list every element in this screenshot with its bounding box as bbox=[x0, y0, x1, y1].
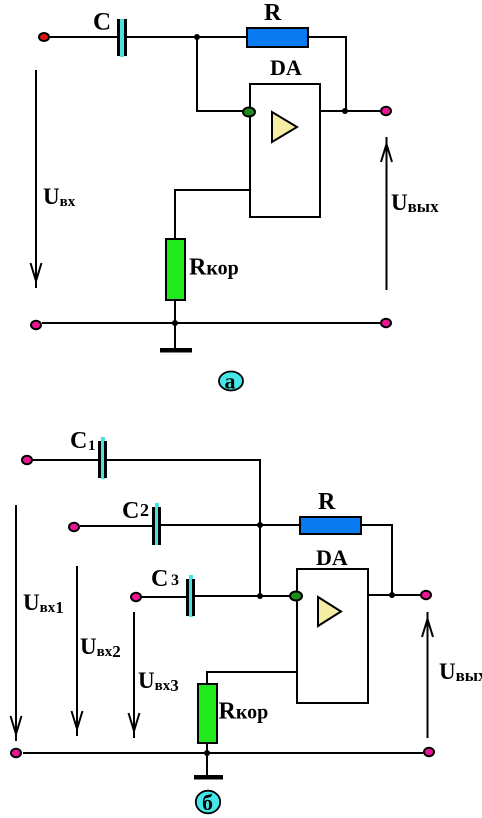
output terminal b (magenta) bbox=[421, 591, 431, 599]
wire node1 down to inverting input bbox=[197, 37, 243, 111]
svg-text:Rкор: Rкор bbox=[189, 255, 239, 281]
bottom-left terminal b (magenta) bbox=[11, 749, 21, 757]
svg-text:1: 1 bbox=[88, 438, 96, 454]
op-amp DA box bbox=[250, 84, 320, 217]
svg-text:3: 3 bbox=[171, 572, 179, 589]
bottom-left terminal (magenta) bbox=[31, 321, 41, 329]
output wire b bbox=[368, 594, 420, 596]
wire R right corner down bbox=[308, 37, 346, 111]
svg-text:Uвх2: Uвх2 bbox=[80, 634, 121, 661]
arrow Uvyx a (up) bbox=[381, 137, 392, 290]
wire R right corner down bbox=[361, 525, 392, 595]
resistor R bbox=[247, 28, 308, 47]
input terminal 1 (magenta) bbox=[22, 456, 32, 464]
bottom-right terminal (magenta) bbox=[381, 319, 391, 327]
wire Rkor to ground bbox=[174, 300, 176, 348]
svg-text:Uвх1: Uвх1 bbox=[23, 590, 64, 617]
ground bbox=[160, 348, 192, 353]
svg-text:DA: DA bbox=[316, 545, 348, 570]
wire Rkor b to ground bbox=[206, 743, 208, 775]
svg-text:R: R bbox=[264, 0, 282, 26]
bottom-right terminal b (magenta) bbox=[424, 748, 434, 756]
arrow Uvx3 (down) bbox=[129, 612, 140, 738]
wire node1 to resistor R bbox=[197, 36, 247, 38]
bottom wire b bbox=[23, 752, 423, 754]
arrow Uvx (down) bbox=[31, 70, 42, 288]
junction C2/C1 node bbox=[257, 522, 263, 528]
resistor Rkor bbox=[166, 239, 185, 300]
svg-text:2: 2 bbox=[140, 500, 149, 520]
wire C1 to corner down bbox=[107, 460, 260, 525]
label circle b bbox=[196, 790, 220, 815]
junction output/feedback b bbox=[389, 592, 395, 598]
svg-text:C: C bbox=[122, 498, 139, 524]
inverting input node (green) bbox=[243, 108, 255, 117]
junction output/feedback bbox=[342, 108, 348, 114]
arrow Uvyx b (up) bbox=[422, 612, 433, 738]
wire node down to input line bbox=[259, 525, 261, 596]
label circle a bbox=[219, 369, 243, 394]
wire input1 to C1 bbox=[33, 459, 98, 461]
output wire bbox=[320, 110, 380, 112]
junction bottom bbox=[172, 320, 178, 326]
svg-text:Uвых: Uвых bbox=[439, 659, 482, 685]
wire C2 to resistor R bbox=[161, 524, 300, 526]
svg-text:DA: DA bbox=[270, 55, 302, 80]
resistor R b bbox=[300, 517, 361, 534]
input terminal (red) bbox=[39, 33, 49, 41]
input terminal 3 (magenta) bbox=[131, 593, 141, 601]
capacitor C bbox=[117, 19, 127, 57]
junction bottom b bbox=[204, 750, 210, 756]
wire C to node1 bbox=[127, 36, 197, 38]
bottom wire bbox=[42, 322, 381, 324]
svg-text:C: C bbox=[151, 566, 168, 592]
svg-text:Uвых: Uвых bbox=[391, 190, 439, 216]
svg-text:б: б bbox=[202, 790, 213, 815]
op-amp triangle b bbox=[318, 597, 341, 626]
op-amp DA box b bbox=[297, 569, 368, 703]
resistor Rkor b bbox=[198, 684, 217, 743]
capacitor C3 bbox=[186, 575, 195, 617]
wire C3 to inverting input bbox=[195, 595, 291, 597]
wire noninverting input b bbox=[207, 672, 297, 684]
inverting input node b (green) bbox=[290, 592, 302, 601]
capacitor C2 bbox=[152, 503, 161, 545]
svg-text:C: C bbox=[93, 9, 111, 36]
svg-text:Rкор: Rкор bbox=[219, 699, 269, 725]
svg-text:R: R bbox=[318, 489, 336, 515]
output terminal (magenta) bbox=[381, 107, 391, 115]
arrow Uvx1 (down) bbox=[11, 505, 22, 741]
capacitor C1 bbox=[98, 437, 107, 479]
svg-text:Uвх: Uвх bbox=[43, 184, 76, 210]
wire input3 to C3 bbox=[142, 596, 186, 598]
op-amp triangle bbox=[272, 112, 297, 142]
junction C3 node bbox=[257, 593, 263, 599]
wire input2 to C2 bbox=[80, 525, 152, 527]
svg-text:а: а bbox=[225, 369, 236, 394]
svg-text:C: C bbox=[70, 428, 87, 454]
wire noninverting input bbox=[175, 190, 250, 239]
ground b bbox=[194, 775, 223, 780]
svg-text:Uвх3: Uвх3 bbox=[138, 668, 179, 695]
input terminal 2 (magenta) bbox=[69, 523, 79, 531]
wire input to C bbox=[50, 36, 117, 38]
junction node1 bbox=[194, 34, 200, 40]
arrow Uvx2 (down) bbox=[72, 566, 83, 736]
